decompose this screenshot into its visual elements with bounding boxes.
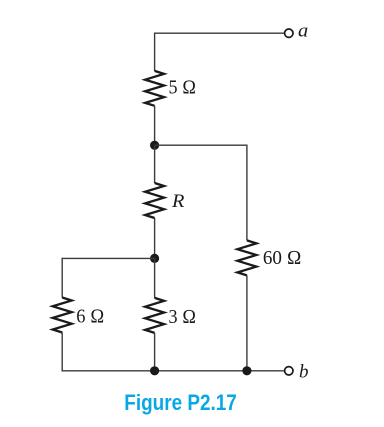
wire from 5 ohm to node 1 bbox=[154, 106, 156, 145]
resistor 3 ohm bbox=[145, 298, 164, 333]
wire from node 1 down to resistor R bbox=[154, 145, 156, 183]
wire from 6 ohm down to bottom wire bbox=[61, 333, 63, 372]
resistor 5 ohm bbox=[145, 71, 164, 106]
resistor R bbox=[145, 183, 164, 218]
wire from 3 ohm down to bottom node bbox=[154, 333, 156, 371]
svg-text:6 Ω: 6 Ω bbox=[76, 306, 104, 328]
wire right branch down to resistor 60 ohm bbox=[246, 145, 248, 241]
svg-text:b: b bbox=[299, 361, 309, 382]
wire vertical from top wire down to resistor 5 ohm bbox=[154, 33, 156, 71]
resistor 6 ohm bbox=[53, 298, 72, 333]
terminal a bbox=[285, 29, 293, 37]
wire from node 1 right to 60-ohm branch bbox=[155, 144, 247, 146]
node 3 (bottom junction of 3 ohm) bbox=[150, 366, 159, 375]
node 2 (junction of R, 6 ohm, 3 ohm) bbox=[150, 254, 159, 263]
svg-text:Figure P2.17: Figure P2.17 bbox=[124, 390, 237, 415]
terminal b bbox=[285, 367, 293, 375]
resistor 60 ohm bbox=[237, 240, 256, 275]
wire from node 2 down to resistor 3 ohm bbox=[154, 258, 156, 298]
svg-text:60 Ω: 60 Ω bbox=[263, 247, 302, 269]
svg-text:a: a bbox=[298, 21, 308, 42]
wire left branch down to resistor 6 ohm bbox=[61, 258, 63, 298]
svg-text:R: R bbox=[171, 191, 185, 212]
wire from 60 ohm down to bottom node bbox=[246, 275, 248, 371]
bottom wire from 6-ohm branch to terminal b bbox=[62, 370, 284, 372]
svg-text:3 Ω: 3 Ω bbox=[169, 306, 197, 328]
wire from node 2 left to 6-ohm branch bbox=[62, 257, 154, 259]
node 1 (junction of 5 ohm, R, 60 ohm) bbox=[150, 141, 159, 150]
node 4 (bottom junction of 60 ohm) bbox=[242, 366, 251, 375]
wire from R to node 2 bbox=[154, 218, 156, 258]
wire top horizontal from 5-ohm branch to terminal a bbox=[155, 32, 285, 34]
svg-text:5 Ω: 5 Ω bbox=[169, 77, 197, 99]
